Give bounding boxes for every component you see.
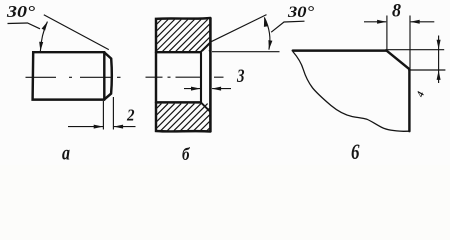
top chamfer slant (fig b) — [201, 42, 211, 52]
chamfer edge line (fig a) — [103, 52, 105, 99]
angle dimension arc (fig a) — [40, 22, 47, 51]
break line (fig v) — [293, 52, 410, 132]
chamfered end face (fig a) — [104, 52, 112, 99]
svg-text:6: 6 — [351, 139, 360, 164]
svg-text:2: 2 — [126, 105, 135, 124]
dimension 2 lines and arrows (fig a) — [68, 126, 136, 128]
chamfer slant (fig v) — [386, 50, 409, 69]
svg-text:а: а — [62, 143, 70, 165]
svg-text:б: б — [182, 144, 190, 164]
dimension 8 lines and arrows (fig v) — [364, 21, 434, 23]
extension lines for dim 8 (fig v) — [387, 16, 410, 69]
vertical dimension line and arrows (fig v) — [438, 36, 440, 84]
bottom chamfer slant (fig b) — [201, 103, 211, 113]
right face line (fig b) — [209, 18, 212, 132]
svg-text:3: 3 — [236, 66, 244, 87]
svg-text:30°: 30° — [287, 4, 315, 21]
svg-text:8: 8 — [392, 0, 401, 21]
figure v: flat part corner chamfer — [293, 0, 446, 164]
chamfer extension line (fig a) — [44, 15, 109, 50]
top surface (fig v) — [293, 49, 387, 51]
horizontal extension line (fig b) — [212, 51, 280, 53]
leader line (fig b 30 deg) — [271, 21, 304, 32]
figure a: shaft with external chamfer — [6, 2, 136, 164]
leader line (fig a 30 deg) — [8, 23, 41, 29]
hole bottom surface (fig b) — [156, 101, 201, 103]
chamfer extension line (fig b) — [211, 15, 267, 42]
right face (fig v) — [408, 69, 410, 131]
hole top surface (fig b) — [156, 51, 201, 53]
center line (fig b) — [146, 76, 224, 78]
angle dimension arc (fig b) — [264, 17, 270, 49]
hatching bottom block (fig b) — [157, 104, 210, 131]
dimension 3 lines and arrows (fig b) — [184, 88, 231, 90]
shaft outline (fig a) — [33, 52, 105, 99]
outer outline (fig b) — [156, 18, 210, 132]
extension lines for vertical dim (fig v) — [387, 50, 445, 70]
extension lines for dim 2 (fig a) — [103, 97, 113, 130]
svg-text:30°: 30° — [6, 2, 35, 21]
chamfer edge line in hole (fig b) — [200, 52, 202, 102]
hatching top block (fig b) — [157, 20, 210, 52]
figure b: hole with internal chamfer, section view — [146, 4, 315, 164]
center line (fig a) — [26, 76, 121, 78]
